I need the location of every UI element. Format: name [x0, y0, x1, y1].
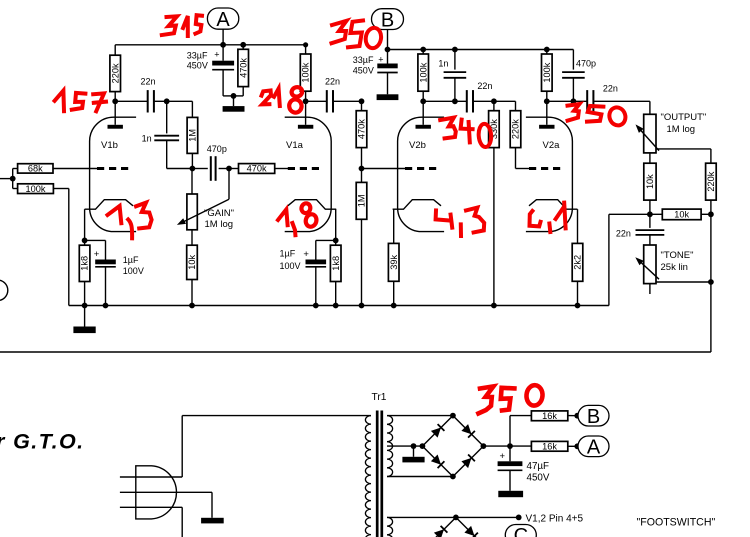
diode D1 (bridge lower-left to top): [431, 428, 441, 438]
node C tag stadium: [505, 525, 536, 537]
resistor 1M (V2b grid leak): [361, 169, 363, 183]
junction 1n / anode row: [452, 98, 458, 104]
svg-text:22n: 22n: [141, 76, 156, 86]
wire tone wiper: [656, 281, 711, 283]
diode D3 (bridge left to bottom): [431, 455, 441, 465]
red note 350 at node B: [332, 21, 347, 43]
diode D2 (bridge top to right): [461, 424, 471, 434]
junction heater pin tap: [516, 515, 522, 521]
red note 6,1 at V2a cathode: [530, 211, 541, 226]
capacitor 22n (V2b coupling): [466, 90, 468, 112]
ground bus: [69, 305, 609, 307]
svg-text:1k8: 1k8: [80, 256, 90, 271]
transformer Tr1 heater secondary winding: [387, 517, 393, 537]
ground (HT center tap): [413, 446, 415, 457]
svg-text:A: A: [587, 437, 601, 459]
svg-text:68k: 68k: [28, 164, 43, 174]
svg-text:10k: 10k: [187, 255, 197, 270]
wire 16k to node B: [568, 415, 578, 417]
diode D6 (heater bridge right): [464, 526, 474, 536]
svg-text:100k: 100k: [301, 62, 311, 82]
junction V2b grid node: [359, 166, 365, 172]
junction center tap ground: [411, 443, 417, 449]
wire bottom return: [0, 351, 711, 353]
junction bus B / 33uF: [385, 47, 391, 53]
svg-text:+: +: [303, 249, 309, 260]
wire input to 68k: [12, 169, 14, 189]
resistor 16k (to node A): [531, 441, 567, 451]
junction gain row left: [190, 166, 196, 172]
junction output row left: [647, 211, 653, 217]
resistor 470k (node A bleeder): [242, 45, 244, 50]
tube V1b: [90, 117, 137, 231]
junction V1a cathode: [333, 238, 339, 244]
svg-text:22n: 22n: [477, 81, 492, 91]
red note 4,3 at V2b cathode: [436, 210, 451, 220]
resistor R 100k (V2a plate load): [546, 50, 548, 55]
resistor 1k8 (V1b cathode): [84, 240, 86, 245]
junction output row right: [708, 211, 714, 217]
junction gain row right: [226, 166, 232, 172]
wire heater secondary: [387, 516, 519, 518]
wire V1b cathode: [84, 209, 86, 240]
bridge rectifier frame: [422, 416, 453, 447]
capacitor 1uF 100V (V1b bypass): [85, 239, 106, 241]
resistor 16k (to node B): [531, 411, 567, 421]
svg-text:100V: 100V: [123, 266, 144, 276]
red note 218 at V1a anode: [262, 91, 272, 105]
junction ground bus / 10k gain: [189, 303, 195, 309]
wire bridge output: [483, 445, 531, 447]
resistor 39k (V2b cathode): [388, 243, 399, 281]
svg-text:1M log: 1M log: [667, 124, 696, 135]
svg-text:470p: 470p: [576, 59, 596, 69]
red note 350 at V2a anode: [568, 104, 580, 121]
svg-text:"OUTPUT": "OUTPUT": [661, 112, 707, 123]
svg-text:A: A: [216, 9, 230, 31]
svg-text:V1,2 Pin 4+5: V1,2 Pin 4+5: [526, 513, 584, 524]
transformer Tr1 core: [376, 411, 379, 537]
svg-text:1n: 1n: [438, 59, 448, 69]
junction bus A / 33uF: [220, 42, 226, 48]
svg-text:+: +: [94, 249, 100, 260]
svg-text:1µF: 1µF: [280, 249, 296, 259]
junction node X: [164, 98, 170, 104]
potentiometer TONE 25k lin: [644, 245, 656, 284]
resistor 470k (V1a grid stopper): [229, 168, 239, 170]
svg-text:33µF: 33µF: [187, 50, 208, 60]
junction V2b anode: [420, 98, 426, 104]
wire 68k to V1b grid: [53, 168, 97, 170]
svg-text:+: +: [500, 451, 506, 462]
red note 218 digit 8: [291, 86, 304, 98]
junction ground bus / 330k: [491, 303, 497, 309]
input wire: [0, 178, 13, 180]
capacitor 47uF 450V (HT filter): [509, 446, 511, 461]
svg-text:470k: 470k: [247, 164, 267, 174]
svg-text:47µF: 47µF: [527, 461, 550, 472]
node B supply stadium: [372, 9, 404, 30]
wire input to 100k: [13, 188, 18, 190]
resistor 220k (output shunt): [706, 163, 717, 200]
junction V1b cathode: [82, 238, 88, 244]
svg-text:22n: 22n: [325, 76, 340, 86]
tube V1a: [285, 117, 332, 231]
svg-text:C: C: [514, 525, 528, 537]
junction ground bus / 1uF V1b: [103, 303, 109, 309]
junction HT output: [507, 443, 513, 449]
junction bus A / 470k: [240, 42, 246, 48]
capacitor 22n (V1a coupling): [326, 90, 328, 112]
junction bridge bottom: [450, 474, 456, 480]
junction input: [10, 176, 16, 182]
ground (node A filter): [233, 96, 235, 106]
capacitor 1n (V2b plate bypass): [454, 50, 456, 70]
svg-text:33µF: 33µF: [353, 55, 374, 65]
resistor 470k (V2b feed): [361, 101, 363, 110]
junction 470p / anode row: [571, 98, 577, 104]
wire output pot wiper: [656, 148, 711, 150]
svg-text:470k: 470k: [238, 58, 248, 78]
tube V2a: [526, 117, 573, 231]
red note 1,3 at V1b cathode: [108, 206, 122, 223]
HT bus A: [115, 44, 305, 46]
junction bus A / 100k: [303, 42, 308, 47]
junction heater bridge: [453, 515, 459, 521]
ground (mains earth): [201, 518, 224, 524]
junction ground bus / 1uF V1a: [313, 303, 319, 309]
transformer Tr1 HT secondary winding: [387, 416, 393, 477]
svg-text:220k: 220k: [110, 63, 120, 83]
resistor 220k (V2a grid feed): [494, 100, 516, 102]
wire output row to ground bus: [609, 213, 650, 215]
resistor 68k (input grid stopper): [18, 164, 53, 173]
red note 157 at V1b anode: [55, 91, 64, 112]
svg-text:Tr1: Tr1: [372, 392, 387, 403]
svg-text:22n: 22n: [616, 229, 631, 239]
svg-text:16k: 16k: [542, 441, 557, 451]
svg-text:25k lin: 25k lin: [661, 262, 688, 273]
ground (node B filter): [377, 94, 399, 100]
wire V2a anode row: [547, 100, 587, 102]
svg-text:100V: 100V: [280, 261, 301, 271]
junction node A tag: [574, 443, 580, 449]
resistor 1k8 (V1a cathode): [335, 240, 337, 245]
junction V2b grid feed: [359, 98, 365, 104]
svg-text:V2a: V2a: [543, 140, 561, 151]
resistor R 100k (V2b plate load): [422, 50, 424, 55]
wire 1M to gain row: [191, 153, 193, 168]
junction 33uF/470k: [231, 93, 237, 99]
capacitor 470p (V2a plate bypass): [572, 50, 574, 70]
wire mains hot to primary: [182, 415, 371, 417]
junction ground bus / 1k8 V1b: [82, 303, 88, 309]
svg-text:B: B: [381, 9, 394, 31]
svg-text:10k: 10k: [645, 174, 655, 189]
wire 22n to node X: [154, 100, 166, 102]
ground (main bus): [84, 306, 86, 327]
junction bus B / 100k V2a: [544, 47, 550, 53]
svg-text:1n: 1n: [142, 133, 152, 143]
svg-text:+: +: [378, 55, 383, 65]
red note 1,8 at V1a cathode: [278, 209, 288, 225]
wire HT center tap: [387, 445, 422, 447]
resistor R 100k (V1a plate load): [305, 45, 307, 54]
mains neutral prong: [120, 506, 182, 508]
svg-text:r G.T.O.: r G.T.O.: [0, 430, 84, 454]
svg-text:100k: 100k: [542, 62, 552, 82]
junction bridge top: [450, 413, 456, 419]
diode D5 (heater bridge left): [434, 529, 444, 537]
junction V1b anode: [112, 98, 118, 104]
svg-text:450V: 450V: [187, 61, 208, 71]
svg-text:22n: 22n: [603, 84, 618, 94]
svg-text:2k2: 2k2: [573, 255, 583, 270]
red note 1,8 digit 8: [300, 202, 311, 214]
svg-text:1µF: 1µF: [123, 255, 139, 265]
resistor 1M (V1b load divider): [187, 117, 198, 153]
wire 22n to 330k node: [474, 100, 494, 102]
wire V2b cathode: [393, 209, 395, 243]
wire 22n to 470k node: [334, 100, 362, 102]
svg-text:16k: 16k: [542, 411, 557, 421]
junction ground bus / 1k8 V1a: [333, 303, 339, 309]
wire right rail: [710, 214, 712, 352]
wire 16k to node A: [568, 445, 578, 447]
resistor 2k2 (V2a cathode): [572, 243, 583, 281]
junction ground bus / 2k2: [575, 303, 581, 309]
svg-text:1M: 1M: [357, 194, 367, 207]
capacitor 22n (tone): [649, 214, 651, 228]
resistor 10k (output series): [649, 153, 651, 163]
svg-text:V1b: V1b: [101, 140, 118, 151]
ground (47uF): [498, 491, 523, 497]
capacitor 22n (output coupling): [586, 90, 588, 112]
transformer Tr1 primary winding: [365, 416, 371, 537]
junction bus B / 1n: [452, 47, 458, 53]
svg-text:10k: 10k: [674, 210, 689, 220]
wire node A to HT bus: [222, 29, 224, 45]
resistor 10k (gain pot tail): [187, 245, 198, 279]
capacitor 1uF 100V (V1a bypass): [316, 239, 336, 241]
svg-text:450V: 450V: [527, 472, 550, 483]
svg-text:100k: 100k: [418, 62, 428, 82]
wire node X to 1M: [167, 100, 193, 102]
node A supply stadium: [207, 8, 238, 29]
diode D4 (bridge bottom to right): [461, 458, 471, 468]
bridge rectifier 2 frame: [425, 517, 456, 537]
resistor 330k (V2b load divider): [493, 101, 495, 110]
junction V2a grid feed: [491, 98, 497, 104]
wire 220k to V1b anode: [114, 92, 116, 102]
svg-text:1M: 1M: [188, 129, 198, 142]
svg-text:1M log: 1M log: [205, 219, 234, 230]
node B tag stadium: [578, 405, 609, 426]
junction ground bus / 39k: [391, 303, 397, 309]
svg-text:V2b: V2b: [409, 140, 426, 151]
capacitor 470p (bright): [192, 168, 207, 170]
wire V2b anode row: [423, 100, 466, 102]
wire V1b anode to 22n: [115, 100, 147, 102]
capacitor 1n (slope): [166, 101, 168, 133]
svg-text:"GAIN": "GAIN": [204, 208, 234, 219]
svg-text:470p: 470p: [207, 144, 227, 154]
mains earth prong: [120, 491, 212, 493]
wire V2a cathode: [577, 209, 579, 243]
wire V1a cathode: [335, 209, 337, 240]
junction ground bus / 1M V2b: [359, 303, 365, 309]
mains hot prong: [120, 476, 182, 478]
mains plug symbol: [136, 466, 177, 519]
capacitor 22n (V1b coupling): [147, 90, 149, 112]
svg-text:100k: 100k: [26, 184, 46, 194]
wire V1a anode to 22n: [306, 100, 327, 102]
wire node B to HT bus: [387, 30, 389, 50]
svg-text:B: B: [587, 406, 600, 428]
wire 10k to ground bus: [191, 280, 193, 306]
junction bridge left: [420, 443, 426, 449]
junction V2a anode: [544, 98, 550, 104]
HT bus B: [388, 49, 574, 51]
svg-text:220k: 220k: [706, 171, 716, 191]
svg-text:220k: 220k: [511, 119, 521, 139]
svg-text:1k8: 1k8: [331, 256, 341, 271]
junction bus B / 100k V2b: [420, 47, 426, 53]
svg-text:"TONE": "TONE": [661, 250, 694, 261]
junction V1a anode: [303, 98, 309, 104]
wire to V2b grid: [362, 168, 406, 170]
capacitor 33uF 450V (node B filter): [387, 50, 389, 64]
wire 22n to output pot: [594, 100, 650, 102]
red note 350 at supply: [478, 386, 493, 413]
svg-text:"FOOTSWITCH": "FOOTSWITCH": [637, 517, 716, 529]
resistor R 220k (V1b plate load): [114, 45, 116, 55]
wire HT secondary bottom: [387, 476, 453, 478]
svg-text:+: +: [214, 50, 219, 60]
red note 315 at node A: [162, 16, 177, 35]
potentiometer GAIN 1M log: [191, 169, 193, 195]
svg-text:470k: 470k: [357, 119, 367, 139]
input jack fragment: [0, 280, 8, 301]
svg-text:39k: 39k: [389, 255, 399, 270]
wire to 16k B: [509, 416, 511, 447]
svg-text:V1a: V1a: [286, 140, 304, 151]
capacitor 33uF 450V (node A filter): [222, 45, 224, 61]
wire HT secondary top: [387, 415, 453, 417]
node A tag stadium: [578, 436, 609, 457]
potentiometer OUTPUT 1M log: [644, 114, 656, 153]
wire 100k to ground bus: [53, 188, 68, 190]
resistor 10k (tone bridge): [650, 213, 662, 215]
tube V2b: [398, 117, 445, 231]
junction node B tag: [574, 413, 580, 419]
red note 340 at V2b anode: [440, 118, 456, 139]
svg-text:450V: 450V: [353, 66, 374, 76]
junction bridge right: [481, 443, 487, 449]
resistor 100k (input): [18, 184, 54, 194]
junction tone wiper / rail: [708, 279, 714, 285]
